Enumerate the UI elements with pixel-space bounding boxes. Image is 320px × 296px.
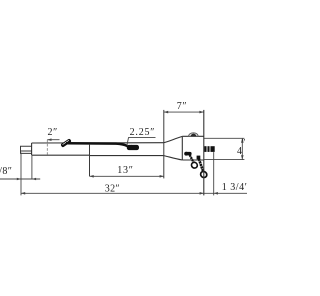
svg-text:13″: 13″	[117, 165, 134, 176]
svg-text:2″: 2″	[48, 127, 58, 138]
dimension 2in line	[47, 139, 59, 141]
dimension 2in dashed extension	[46, 140, 48, 156]
svg-text:32″: 32″	[105, 183, 120, 194]
svg-text:7/8″: 7/8″	[0, 166, 12, 177]
svg-text:7″: 7″	[177, 101, 187, 112]
extension line right of 1-3/4in	[213, 152, 215, 195]
dimension 2.25in underline leader	[127, 138, 156, 145]
extension from stub left	[20, 153, 22, 196]
main column tube	[32, 143, 164, 156]
head cylinder	[182, 136, 204, 160]
svg-text:2.25″: 2.25″	[130, 127, 156, 138]
lever 1 boss and knob	[184, 152, 191, 156]
dimension 4in extension lines	[204, 137, 245, 139]
extension line left of 7in / right of 13in	[163, 110, 165, 178]
svg-text:″: ″	[242, 138, 246, 148]
extension from tube left bottom	[31, 156, 33, 179]
extension line right of 7in and head right edge	[203, 110, 205, 195]
dimension 4in line	[241, 138, 243, 159]
lower stub shaft	[21, 146, 32, 153]
leader arrow to sleeve	[126, 145, 131, 148]
rod end sleeve	[127, 145, 139, 150]
dimension 32in / 1-3/4in line	[21, 192, 247, 194]
shift rod	[66, 143, 127, 146]
svg-text:1 3/4″: 1 3/4″	[222, 182, 247, 193]
hazard button dome	[188, 133, 198, 136]
dimension 13in line	[90, 175, 164, 177]
lever 2 stem	[199, 159, 203, 172]
lever 1 stem	[190, 155, 194, 162]
ribbed coupler on right	[204, 146, 215, 152]
lever 2 ring	[199, 170, 208, 179]
cone flare	[164, 136, 183, 160]
dimension 7in line	[164, 111, 204, 113]
extension line left of 13in	[89, 145, 91, 177]
dimension 7/8in line	[0, 178, 40, 180]
lever 1 ring	[190, 161, 198, 169]
shift lever handle	[60, 138, 71, 147]
lever 2 boss	[197, 156, 201, 160]
